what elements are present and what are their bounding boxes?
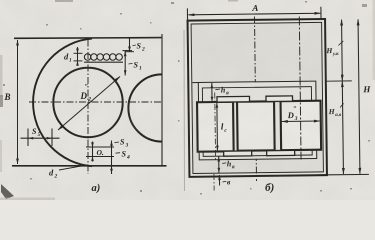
label h_v bbox=[222, 162, 226, 165]
bottom dash-dot bbox=[213, 174, 215, 190]
coil block B1 bbox=[197, 102, 234, 152]
bottom extension line bbox=[319, 173, 369, 176]
dim S2 extension bbox=[129, 38, 131, 52]
dim O height bbox=[92, 142, 94, 162]
label S2 bbox=[133, 44, 136, 47]
dim N_uk (upper chain segment) bbox=[341, 20, 344, 81]
dim h_ya top bbox=[211, 83, 213, 102]
window top line extension bbox=[192, 82, 198, 84]
label v bbox=[223, 180, 227, 183]
dim H bbox=[358, 19, 360, 173]
diameter line D2 bbox=[58, 77, 120, 131]
dim S1 bbox=[124, 51, 126, 76]
label S1 bbox=[129, 62, 133, 65]
label S3 bbox=[115, 141, 120, 144]
dim D3 bbox=[282, 120, 320, 122]
bottom edge line bbox=[12, 165, 167, 167]
label S4 bbox=[116, 152, 121, 155]
second circle (clipped by break line) bbox=[128, 74, 162, 141]
dim S3 S4 line bbox=[111, 141, 113, 175]
window inner rect bbox=[202, 87, 312, 157]
label h_ya bbox=[215, 88, 220, 91]
centerline vertical (circle D2) bbox=[87, 40, 89, 175]
dim S5 bbox=[27, 129, 29, 147]
dim N_av (lower chain segment) bbox=[342, 81, 343, 174]
break line (right edge of figure a) bbox=[161, 34, 163, 167]
line under holes bbox=[84, 61, 123, 63]
bottom tab 2 bbox=[267, 150, 295, 155]
dim v bottom bbox=[218, 175, 220, 185]
core interior shading bbox=[191, 22, 323, 174]
top tab 1 bbox=[217, 96, 250, 102]
tick above S1 bbox=[123, 50, 133, 52]
main centerline bbox=[255, 17, 257, 181]
dim h_v bottom bbox=[218, 156, 220, 173]
dim d1 bbox=[77, 47, 79, 65]
label d2 with leader bbox=[59, 165, 88, 170]
top tab 2 bbox=[266, 96, 293, 102]
coil block B2 bbox=[237, 101, 275, 150]
label N_av leader bbox=[340, 103, 344, 107]
window outer rect bbox=[198, 81, 316, 160]
coil block B3 bbox=[281, 101, 322, 150]
dim l_c bbox=[216, 102, 219, 150]
inner circle D2 bbox=[53, 68, 122, 137]
dim B line bbox=[17, 40, 19, 164]
centerline horizontal bbox=[29, 101, 162, 103]
outer circle arc bbox=[33, 39, 92, 167]
top edge line bbox=[14, 37, 162, 40]
centerline B3 bbox=[299, 16, 301, 159]
bottom tab 1 bbox=[224, 151, 252, 156]
page crease line bbox=[183, 30, 185, 191]
small holes row d1 bbox=[84, 54, 91, 61]
centerline B1 bbox=[214, 93, 217, 161]
core outer rect bbox=[188, 19, 327, 177]
slot lines (O) bbox=[86, 146, 114, 148]
extension tick y82 bbox=[325, 80, 351, 82]
dim A bbox=[188, 13, 320, 15]
core inner rect line bbox=[191, 22, 323, 173]
